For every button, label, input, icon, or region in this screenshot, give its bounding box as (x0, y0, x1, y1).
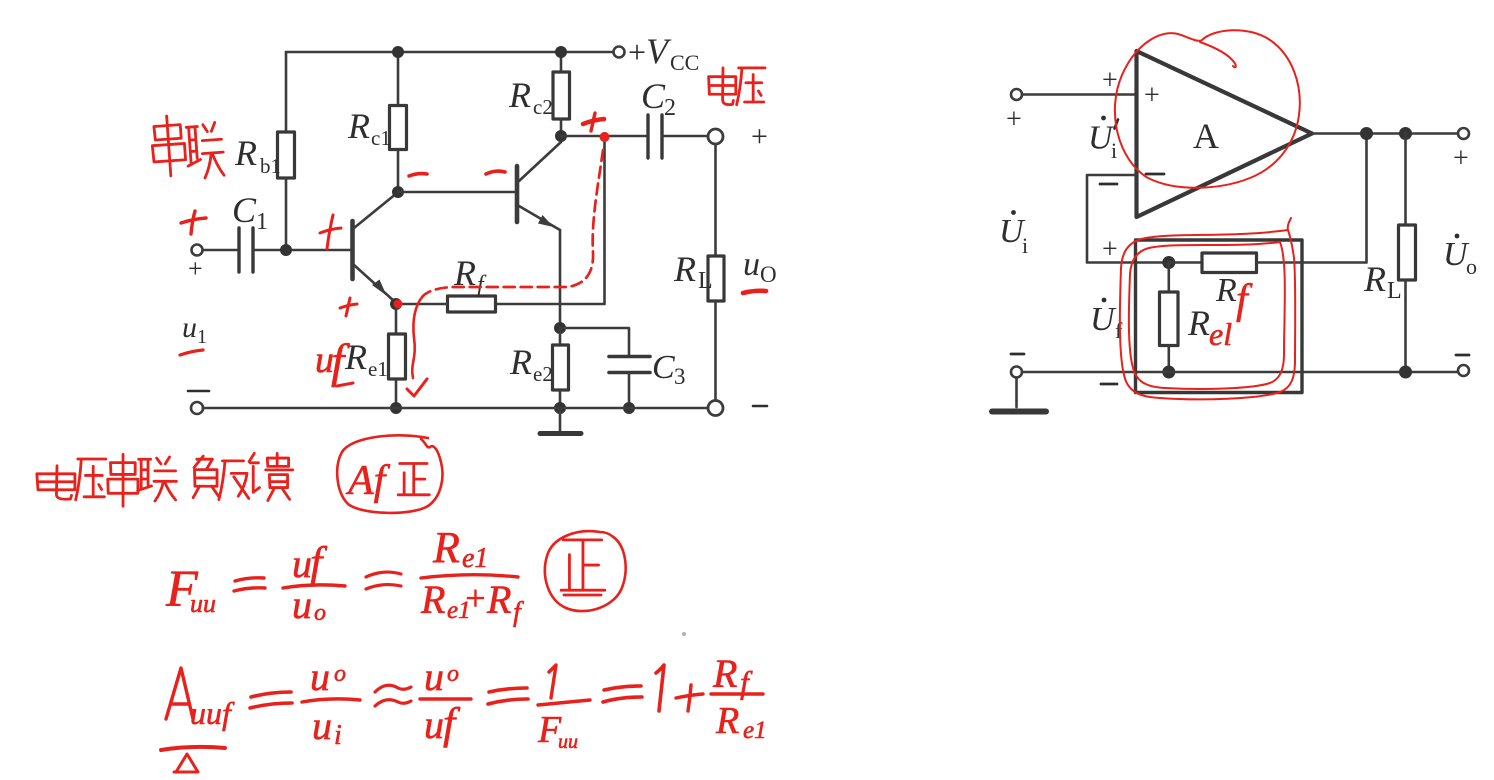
annotation scribble around feedback box outer (1120, 218, 1295, 399)
annotation dashed feedback path upper (423, 150, 603, 296)
label +Vcc (628, 31, 699, 75)
node collector2 out (555, 130, 567, 142)
svg-text:e1: e1 (743, 717, 767, 744)
node base1 junction (280, 244, 292, 256)
wire input to op-amp (1022, 93, 1136, 96)
svg-text:U: U (1090, 301, 1117, 338)
svg-text:+: + (1102, 234, 1118, 265)
node RL top right (1399, 127, 1412, 140)
label RL (673, 249, 713, 294)
op-amp A triangle (1137, 51, 1313, 217)
svg-text:R: R (420, 577, 445, 622)
label Re1 (344, 337, 388, 381)
wire T2 base (398, 191, 515, 194)
svg-text:2: 2 (664, 95, 676, 121)
node emitter1 (390, 298, 402, 310)
svg-text:Af: Af (345, 458, 391, 504)
svg-text:+: + (1453, 143, 1469, 174)
svg-text:V: V (646, 31, 672, 71)
svg-text:u: u (292, 541, 312, 586)
resistor RL right diagram (1399, 134, 1416, 373)
node collector1 (392, 186, 404, 198)
svg-text:A: A (1193, 116, 1219, 156)
svg-text:b1: b1 (260, 154, 281, 178)
label minus under box (1101, 383, 1117, 386)
annotation red dash under u1 (180, 350, 203, 355)
wire bottom rail (203, 407, 708, 410)
annotation fraction bars formula 2 (302, 699, 360, 702)
label minus over bottom-left terminal (188, 390, 209, 393)
annotation plus at T1 base (320, 228, 341, 233)
svg-text:f: f (1236, 277, 1253, 323)
label Rb1 (234, 133, 281, 178)
node rail-Rc2 (555, 46, 567, 58)
input terminal ui (192, 245, 203, 256)
annotation red f label (1236, 277, 1253, 323)
node C3 bottom (623, 402, 635, 414)
svg-text:R: R (1363, 259, 1386, 299)
wire feedback input loop (1087, 175, 1169, 263)
svg-text:+: + (1144, 80, 1160, 111)
svg-text:3: 3 (674, 364, 686, 389)
annotation red dot emitter node (394, 300, 403, 309)
resistor Rc2 (553, 52, 570, 136)
svg-text:o: o (447, 661, 459, 687)
annotation red dot output node (600, 132, 610, 142)
svg-text:f: f (443, 699, 461, 748)
terminal +Vcc (614, 47, 625, 58)
svg-text:u: u (312, 703, 332, 748)
svg-text:R: R (1215, 272, 1237, 309)
annotation curl inside heart (1200, 42, 1236, 67)
label Ui-prime (1088, 116, 1118, 163)
svg-text:o: o (334, 661, 346, 687)
capacitor C2 (648, 115, 662, 158)
svg-text:R: R (344, 337, 367, 377)
annotation red el label (1209, 316, 1232, 352)
svg-text:R: R (347, 106, 370, 146)
terminal output top (708, 129, 723, 144)
label Rc1 (347, 106, 391, 150)
svg-text:u: u (424, 654, 444, 699)
svg-text:f: f (513, 597, 524, 628)
svg-text:R: R (715, 700, 739, 742)
svg-text:uuf: uuf (190, 695, 235, 731)
annotation formula Fuu (165, 561, 216, 618)
svg-text:o: o (314, 600, 326, 626)
terminal bottom-left right diagram (1011, 367, 1022, 378)
node Re2 bottom (554, 402, 566, 414)
svg-text:o: o (1466, 254, 1477, 279)
annotation minus mark 2 (486, 171, 505, 174)
svg-text:u: u (743, 246, 760, 283)
svg-text:uu: uu (558, 731, 578, 753)
svg-text:CC: CC (670, 50, 699, 75)
svg-text:i: i (1111, 138, 1117, 163)
annotation feedback path lower solid (412, 296, 423, 378)
svg-text:+: + (628, 34, 646, 70)
svg-text:e1: e1 (462, 543, 488, 574)
svg-text:R: R (509, 342, 532, 382)
wire top supply rail (286, 51, 613, 54)
svg-text:R: R (673, 249, 696, 289)
resistor Rc1 (390, 52, 407, 192)
resistor Rb1 (278, 132, 295, 178)
label Uo right (1443, 234, 1477, 279)
svg-text:+: + (1102, 65, 1118, 96)
label minus over left ground terminal (1011, 353, 1024, 356)
svg-text:R: R (1187, 303, 1210, 343)
svg-text:R: R (234, 133, 257, 173)
wire Rb1 top lead from rail (285, 52, 288, 132)
resistor Re2 (553, 328, 569, 408)
svg-text:O: O (760, 262, 777, 287)
capacitor C1 (239, 228, 253, 272)
feedback network box (1136, 240, 1303, 393)
svg-text:1: 1 (197, 326, 207, 348)
wire Rf to emitter node (396, 303, 448, 306)
label minus inside op-amp (1146, 173, 1164, 176)
wire bottom rail right (1022, 371, 1458, 374)
label C1 (232, 190, 268, 235)
label Rc2 (508, 75, 553, 119)
svg-text:L: L (1387, 278, 1402, 304)
terminal input right diagram (1011, 89, 1022, 100)
svg-text:uu: uu (190, 589, 216, 618)
label u1 (182, 311, 207, 348)
annotation fraction bars formula 1 (283, 585, 345, 588)
annotation circled Af positive (337, 435, 442, 513)
transistor T1 (353, 193, 398, 301)
label Re2 (509, 342, 553, 386)
svg-text:R: R (712, 651, 737, 696)
node Re1 top right diagram (1162, 256, 1175, 269)
wire C2 to output terminal (662, 135, 708, 138)
annotation dianya top right (709, 68, 736, 105)
capacitor C3 (609, 357, 650, 409)
node emitter2-Re2 (554, 322, 566, 334)
terminal output right top (1458, 128, 1469, 139)
ground right diagram (992, 378, 1046, 412)
label minus over bottom-right terminal (1456, 354, 1469, 357)
annotation circled zheng 1 (545, 531, 626, 611)
annotation formula Auuf (166, 668, 193, 719)
annotation underline A and delta (161, 747, 225, 750)
svg-text:c1: c1 (371, 126, 391, 150)
transistor T2 (517, 136, 561, 328)
svg-text:u: u (292, 582, 312, 627)
svg-text:f: f (477, 272, 487, 298)
ground (540, 408, 581, 434)
label Ui (999, 210, 1028, 258)
annotation plus at input (181, 218, 206, 223)
node rail-Rc1 (392, 46, 404, 58)
svg-text:C: C (641, 76, 666, 116)
svg-text:+: + (751, 120, 768, 153)
speck (682, 632, 686, 636)
annotation check mark (407, 379, 427, 396)
svg-text:e2: e2 (533, 362, 553, 386)
label uO (743, 246, 777, 287)
wire Rb1 bottom lead (285, 178, 288, 250)
wire input to C1 (203, 249, 239, 252)
svg-text:u: u (182, 311, 197, 344)
label minus output (753, 405, 767, 408)
svg-text:C: C (652, 349, 675, 386)
wire emitter2 to C3 (560, 328, 629, 356)
svg-text:L: L (698, 268, 713, 294)
annotation plus at emitter node (340, 304, 357, 308)
terminal output bottom (708, 401, 723, 416)
svg-text:i: i (334, 720, 342, 751)
svg-text:c2: c2 (533, 95, 553, 119)
annotation plus at output node (583, 119, 604, 124)
annotation scribble around feedback box inner (1129, 242, 1285, 389)
node rail-RL right (1399, 366, 1412, 379)
svg-text:+: + (1006, 104, 1022, 135)
svg-text:R: R (486, 577, 511, 622)
svg-text:+: + (188, 254, 203, 283)
wire op-amp output (1312, 132, 1458, 135)
label minus outside op-amp (1100, 183, 1117, 186)
annotation heart loop over op-amp (1115, 30, 1300, 188)
label C3 (652, 349, 686, 389)
resistor Re1 right diagram (1160, 263, 1179, 373)
svg-text:R: R (508, 75, 531, 115)
resistor Rf (448, 296, 496, 312)
svg-text:u: u (310, 654, 330, 699)
resistor Re1 (389, 304, 406, 408)
annotation uf handwritten (315, 335, 350, 388)
svg-text:e1: e1 (368, 357, 388, 381)
wire collector2 to C2 (561, 135, 648, 138)
annotation minus mark 1 (409, 174, 427, 176)
annotation red underline uO (743, 291, 766, 293)
annotation chuan-lian top left (150, 115, 186, 177)
svg-text:f: f (310, 538, 328, 587)
svg-text:1: 1 (256, 209, 268, 235)
terminal bottom-right right diagram (1458, 365, 1469, 376)
node feedback tap (600, 132, 609, 141)
wire C1 to T1 base (253, 249, 351, 252)
resistor Rf right diagram (1169, 134, 1367, 273)
label RL right (1363, 259, 1402, 304)
svg-text:R: R (432, 523, 460, 572)
annotation caption dian-ya-chuan-lian-fu-fan-kui (37, 466, 75, 499)
svg-text:C: C (232, 190, 257, 230)
node Re1 bottom (390, 402, 402, 414)
svg-text:i: i (1022, 233, 1028, 258)
node Re1 bottom right diagram (1162, 366, 1175, 379)
label C2 (641, 76, 676, 121)
annotation dash under uf (337, 383, 353, 386)
svg-text:el: el (1209, 316, 1232, 352)
wire feedback from output node down to Rf (496, 137, 605, 305)
resistor RL (708, 144, 724, 401)
svg-text:+: + (463, 578, 487, 618)
terminal bottom left (191, 402, 203, 414)
label Rf (453, 253, 487, 298)
label Uf (1090, 298, 1123, 343)
svg-text:u: u (424, 702, 444, 747)
node feedback tap right (1360, 127, 1373, 140)
